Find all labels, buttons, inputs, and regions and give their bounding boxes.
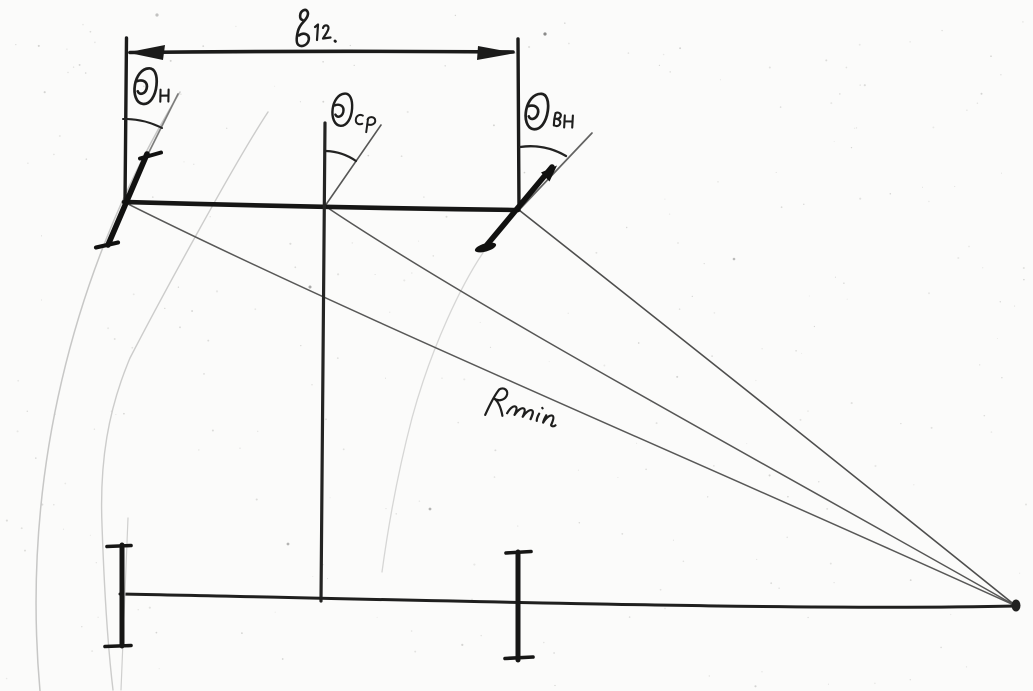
right front wheel bottom tick [474, 241, 497, 255]
average direction line (theta-sr line through center) [325, 125, 381, 206]
inner-left faint arc (left rear wheel trajectory) [102, 112, 268, 690]
turning center point [1012, 600, 1021, 612]
dimension arrow left [127, 45, 165, 60]
right wheel direction line [519, 133, 592, 210]
center rear wheel bottom tick [505, 657, 533, 659]
paper specks [543, 32, 546, 35]
theta-vn angle arc [520, 146, 566, 156]
label Rmin [485, 386, 561, 431]
left kingpin vertical line [125, 38, 127, 202]
left wheel direction line (tangent through left front wheel) [124, 94, 178, 202]
faint vertical trace through left rear wheel [121, 518, 128, 690]
outer turning-radius arc (outer front wheel trajectory) [36, 92, 180, 691]
left rear wheel top tick [107, 546, 131, 547]
center vertical line (longitudinal axis) [321, 123, 325, 601]
center rear wheel [516, 552, 521, 660]
front axle line [124, 202, 518, 210]
line: right front wheel to turning center [519, 210, 1016, 606]
rear axle line [120, 594, 1016, 607]
label B12 (dimension) [297, 10, 336, 46]
left rear wheel bottom tick [105, 646, 131, 647]
label theta-n [133, 67, 172, 107]
left front wheel top tick [140, 153, 161, 159]
center rear wheel top tick [506, 552, 531, 554]
label theta-sr [331, 93, 377, 133]
label theta-vn [524, 92, 577, 134]
theta-n angle arc [123, 119, 162, 128]
Rmin line: left front wheel to turning center [124, 202, 1016, 606]
theta-sr angle arc [326, 151, 356, 161]
faint arc through inner front wheel [382, 247, 487, 572]
left rear wheel [120, 545, 125, 646]
right front wheel top tick (arrow) [541, 166, 557, 182]
line: center of front axle to turning center [325, 206, 1016, 606]
left front wheel [108, 154, 147, 245]
dimension arrow right [477, 46, 516, 60]
right front wheel [486, 167, 552, 246]
dimension line B12 [130, 51, 513, 52]
right kingpin vertical line [518, 39, 519, 210]
left front wheel bottom tick [96, 243, 118, 248]
